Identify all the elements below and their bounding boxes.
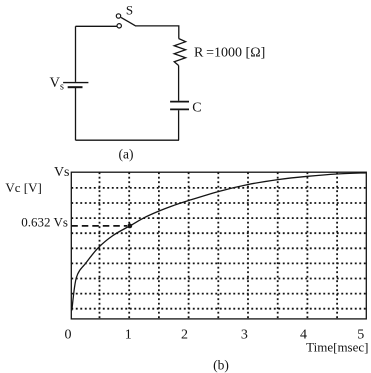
svg-text:Vc [V]: Vc [V] bbox=[5, 180, 41, 195]
svg-text:(a): (a) bbox=[119, 147, 134, 162]
marker dot at t=1 bbox=[127, 224, 132, 229]
capacitor C1 bbox=[170, 102, 189, 110]
0.632 Vs dashed level line bbox=[71, 225, 127, 227]
svg-text:Vs: Vs bbox=[54, 165, 70, 180]
svg-text:S: S bbox=[126, 3, 133, 18]
charging curve Vc(t) bbox=[72, 173, 367, 311]
svg-text:2: 2 bbox=[181, 328, 188, 343]
wire left lower (battery - to bottom) bbox=[75, 88, 77, 141]
wire bottom bbox=[76, 139, 180, 141]
svg-text:0.632 Vs: 0.632 Vs bbox=[21, 214, 68, 229]
svg-text:0: 0 bbox=[65, 328, 72, 343]
wire top-right (switch to resistor) bbox=[135, 26, 179, 39]
switch S bbox=[116, 14, 135, 28]
svg-text:Time[msec]: Time[msec] bbox=[306, 340, 368, 355]
wire top-left (battery + to switch) bbox=[76, 25, 118, 27]
grid horizontal dotted lines bbox=[71, 188, 366, 309]
svg-text:(b): (b) bbox=[213, 358, 229, 373]
wire resistor to capacitor bbox=[178, 66, 180, 101]
svg-text:3: 3 bbox=[241, 328, 248, 343]
wire capacitor to bottom bbox=[178, 110, 180, 140]
wire left upper (battery top) bbox=[75, 26, 77, 82]
svg-text:R =1000 [Ω]: R =1000 [Ω] bbox=[194, 46, 265, 61]
battery V1 bbox=[63, 83, 88, 88]
graph plot border / axes bbox=[71, 172, 366, 319]
svg-text:1: 1 bbox=[125, 328, 132, 343]
svg-text:C: C bbox=[192, 101, 201, 116]
resistor R1 bbox=[174, 39, 185, 66]
grid vertical dotted lines bbox=[100, 172, 338, 319]
